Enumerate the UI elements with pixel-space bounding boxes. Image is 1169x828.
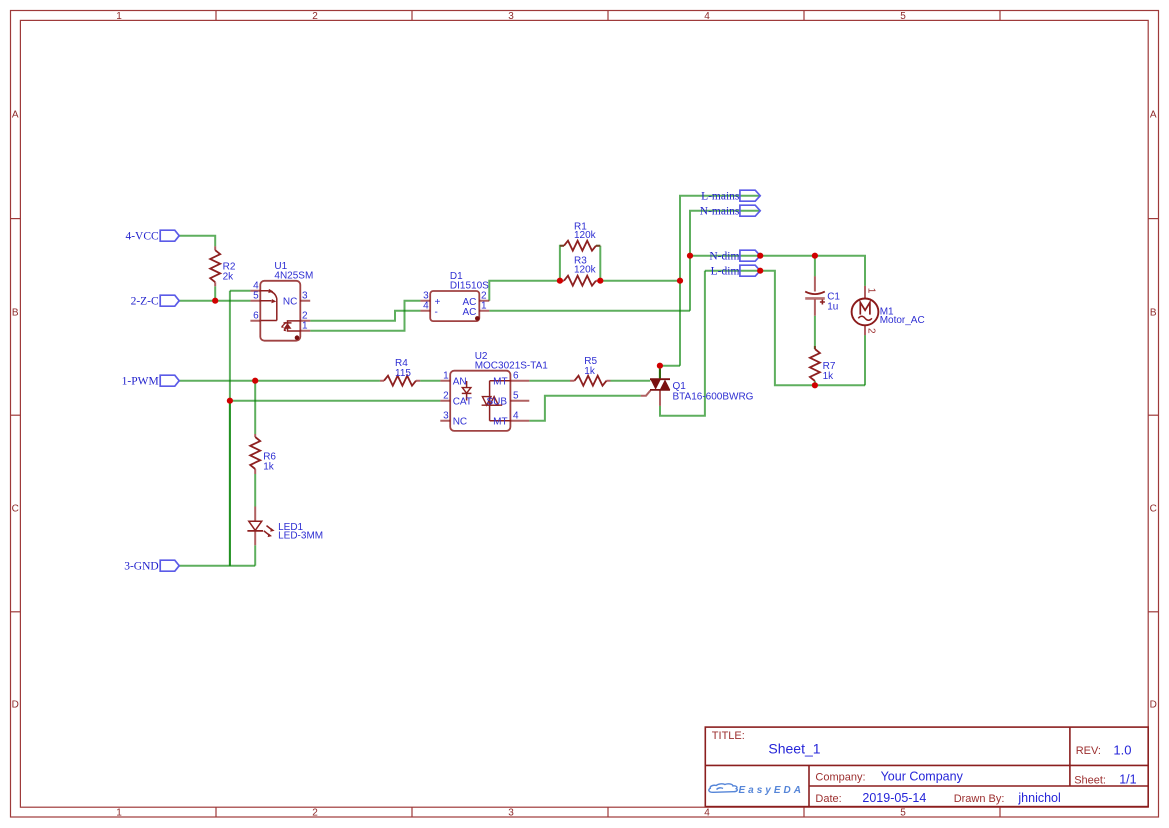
svg-text:4: 4 [513, 411, 519, 422]
U1 phototransistor arrows [268, 289, 273, 293]
svg-text:N-mains: N-mains [700, 206, 740, 218]
titleblock outer box [705, 727, 1148, 807]
svg-text:1: 1 [481, 301, 487, 312]
U1 pin1 marker dot [295, 335, 300, 340]
svg-text:5: 5 [900, 11, 906, 22]
wire Q1 MT1 to L-dim vertical [660, 271, 705, 416]
svg-text:2: 2 [312, 808, 318, 819]
wire R1 right riser [596, 246, 600, 281]
D1 body box [430, 291, 479, 321]
U1 body box [260, 281, 300, 341]
Q1 pin leads and gate [641, 369, 660, 406]
node PWM junction [252, 378, 258, 384]
wire U1 pin1 to D1 pin3 [310, 301, 420, 331]
svg-text:1k: 1k [263, 462, 275, 473]
U2 triac [490, 381, 511, 421]
node R1/R3 left junction [557, 278, 563, 284]
resistor R7 [810, 346, 836, 382]
frame column tick marks bottom [216, 807, 1000, 817]
node L bus junction [677, 278, 683, 284]
capacitor C1 [805, 276, 840, 316]
wire L-dim feed from Q1 [705, 270, 760, 272]
wire vertical bus lower segment doubled [229, 401, 231, 566]
R4 pin leads [380, 380, 420, 382]
svg-text:3: 3 [302, 291, 308, 302]
svg-text:1: 1 [866, 288, 877, 294]
wire C1 bottom to R7 [814, 316, 816, 349]
wire R5 to Q1 MT2 bar [611, 380, 651, 382]
frame column numbers bottom [116, 808, 906, 819]
frame row letters left [12, 110, 19, 711]
wire D1 pin1 to N vertical [489, 310, 690, 312]
wire U1 pin2 to D1 pin4 [310, 311, 420, 321]
wire U1 pin4 to vertical bus [230, 290, 251, 292]
svg-text:BTA16-600BWRG: BTA16-600BWRG [673, 391, 754, 402]
node N-dim tip junction [757, 253, 763, 259]
node L-dim tip junction [757, 268, 763, 274]
LED1 pin leads [254, 507, 256, 546]
R3 pin leads [560, 280, 600, 282]
wire R3 right to L node [600, 280, 680, 282]
svg-text:Company:: Company: [815, 772, 865, 784]
svg-text:6: 6 [513, 371, 519, 382]
svg-text:1u: 1u [827, 301, 838, 312]
titleblock logo column divider [808, 765, 810, 806]
U1 internal LED diode [288, 321, 301, 331]
R2 zigzag body [210, 250, 220, 282]
port N-mains [700, 205, 760, 217]
svg-text:1.0: 1.0 [1113, 743, 1131, 758]
svg-text:MT: MT [493, 377, 507, 388]
svg-text:L-dim: L-dim [711, 266, 740, 278]
svg-text:4N25SM: 4N25SM [274, 271, 313, 282]
port 1-PWM [122, 375, 180, 387]
LED1 emission arrow 2 [264, 531, 270, 536]
wire Q1 MT2 node [660, 366, 680, 378]
frame column tick marks top [216, 11, 1000, 21]
wire N-dim to C1 and M1 [760, 256, 865, 286]
wire 1-PWM to R4 [179, 380, 380, 382]
node C1 top junction [812, 253, 818, 259]
Q1 MT bars [650, 379, 670, 390]
wire LED1 bottom to GND rail [254, 545, 256, 565]
D1 pin leads [420, 301, 489, 311]
port 4-VCC [125, 230, 179, 242]
svg-text:6: 6 [253, 311, 259, 322]
U1 pin leads [250, 291, 310, 331]
frame row letters right [1150, 110, 1157, 711]
resistor R2 [210, 246, 236, 286]
svg-text:2: 2 [866, 328, 877, 334]
titleblock title row divider [705, 764, 1148, 766]
svg-text:1: 1 [443, 371, 449, 382]
LED LED1 [247, 507, 323, 546]
M1 pin leads [864, 286, 866, 335]
svg-text:A: A [12, 110, 19, 121]
R3 zigzag body [564, 276, 596, 286]
LED1 emission arrow 1 [267, 526, 273, 531]
C1 straight plate [805, 297, 825, 300]
wire L vertical L-mains to Q1 [680, 196, 760, 366]
svg-text:-: - [435, 307, 438, 318]
svg-text:3-GND: 3-GND [124, 561, 159, 573]
R6 pin leads [254, 434, 256, 474]
wire 4-VCC to R2 top [179, 236, 215, 247]
svg-text:NC: NC [283, 297, 297, 308]
svg-text:B: B [12, 308, 19, 319]
svg-text:LED-3MM: LED-3MM [278, 531, 323, 542]
svg-text:1k: 1k [584, 366, 596, 377]
svg-text:4-VCC: 4-VCC [125, 231, 159, 243]
node N bus junction [687, 253, 693, 259]
svg-text:5: 5 [253, 291, 259, 302]
svg-text:MT: MT [493, 417, 507, 428]
svg-text:1: 1 [116, 808, 122, 819]
svg-text:B: B [1150, 308, 1157, 319]
node R7 bottom junction [812, 382, 818, 388]
port N-dim [709, 250, 760, 262]
R5 pin leads [570, 380, 611, 382]
wire R2 bottom to node ZC [214, 286, 216, 300]
frame row tick marks left [11, 219, 21, 612]
svg-text:2: 2 [443, 391, 449, 402]
wire N-dim stub [690, 255, 760, 257]
svg-text:Sheet_1: Sheet_1 [768, 741, 820, 757]
port L-dim [711, 265, 761, 277]
resistor R1 [560, 221, 600, 250]
svg-text:2019-05-14: 2019-05-14 [862, 791, 926, 805]
diode bridge D1 [420, 271, 489, 321]
svg-text:EasyEDA: EasyEDA [739, 785, 804, 796]
C1 polarity plus sign [820, 300, 825, 305]
frame row tick marks right [1148, 219, 1158, 612]
svg-text:2: 2 [312, 11, 318, 22]
titleblock [705, 727, 1148, 807]
U2 LED [466, 381, 468, 401]
wire bus junction to U2 pin2 [230, 400, 440, 402]
svg-text:A: A [1150, 110, 1157, 121]
wire vertical bus lower segment overlay [229, 401, 231, 566]
svg-text:Sheet:: Sheet: [1074, 775, 1106, 787]
svg-text:N-dim: N-dim [709, 251, 739, 263]
svg-text:L-mains: L-mains [701, 191, 740, 203]
Q1 right triangle [660, 379, 671, 390]
U2 body box [450, 371, 510, 431]
svg-text:1: 1 [116, 11, 122, 22]
svg-text:1: 1 [302, 321, 308, 332]
wire vertical bus upper segment [229, 291, 231, 401]
svg-text:jhnichol: jhnichol [1017, 791, 1060, 805]
R7 zigzag body [810, 349, 820, 381]
LED1 cathode bar [247, 530, 263, 532]
svg-text:SUB: SUB [486, 397, 507, 408]
svg-text:C: C [12, 503, 19, 514]
svg-text:AN: AN [453, 377, 467, 388]
wire R6 bottom to LED1 [254, 474, 256, 507]
svg-text:1k: 1k [823, 371, 835, 382]
motor M1 [852, 286, 925, 335]
svg-text:2k: 2k [223, 272, 235, 283]
svg-text:C: C [1150, 503, 1157, 514]
svg-text:4: 4 [423, 301, 429, 312]
wire R1 left riser [560, 246, 564, 281]
svg-text:3: 3 [443, 411, 449, 422]
EasyEDA logo cloud [709, 784, 738, 793]
U1 phototransistor [260, 291, 277, 321]
port 3-GND [124, 560, 179, 572]
svg-text:TITLE:: TITLE: [712, 730, 745, 742]
U2 pin leads [440, 381, 529, 421]
svg-text:D: D [12, 700, 19, 711]
Q1 left triangle [650, 379, 661, 390]
svg-text:3: 3 [508, 11, 514, 22]
triac Q1 [641, 366, 754, 406]
node bus to U2 CAT junction [227, 398, 233, 404]
svg-text:DI1510S: DI1510S [450, 280, 489, 291]
wire 3-GND rail [179, 565, 255, 567]
svg-text:Motor_AC: Motor_AC [880, 315, 925, 326]
wire PWM junction down to R6 [254, 381, 256, 434]
svg-text:5: 5 [900, 808, 906, 819]
optocoupler triac driver U2 [440, 351, 548, 431]
junction dots [212, 253, 818, 404]
svg-text:120k: 120k [574, 265, 597, 276]
svg-text:Your Company: Your Company [881, 770, 964, 784]
svg-text:120k: 120k [574, 230, 597, 241]
svg-text:Q1: Q1 [673, 381, 687, 392]
Q1 MT2 wire overlay [659, 366, 661, 379]
svg-text:5: 5 [513, 391, 519, 402]
wire R4 to U2 pin1 [420, 380, 440, 382]
node Q1 MT2 junction [657, 363, 663, 369]
D1 pin1 marker dot [475, 316, 480, 321]
wire U2 pin4 to Q1 gate [529, 396, 640, 421]
svg-text:Date:: Date: [815, 793, 841, 805]
svg-text:3: 3 [508, 808, 514, 819]
wire N vertical [690, 211, 760, 311]
svg-text:AC: AC [462, 307, 476, 318]
frame column numbers top [116, 11, 906, 22]
node R1/R3 right junction [597, 278, 603, 284]
R4 zigzag body [384, 376, 416, 386]
optocoupler U1 [250, 261, 313, 341]
svg-text:1-PWM: 1-PWM [122, 376, 159, 388]
C1 curved plate [805, 292, 825, 295]
svg-text:NC: NC [453, 417, 467, 428]
svg-text:D: D [1150, 700, 1157, 711]
resistor R5 [570, 356, 611, 386]
wire C1 top feed [814, 256, 816, 277]
LED1 triangle [249, 521, 262, 530]
wire U2 pin6 to R5 [529, 380, 570, 382]
M1 letter M [860, 302, 870, 314]
svg-text:Drawn By:: Drawn By: [954, 793, 1005, 805]
svg-text:115: 115 [395, 368, 411, 379]
R1 zigzag body [564, 241, 596, 251]
svg-text:CAT: CAT [453, 397, 472, 408]
svg-text:1/1: 1/1 [1119, 773, 1136, 787]
wire D1 pin2 riser to R3 left [489, 281, 560, 301]
resistor R4 [380, 358, 420, 386]
M1 circle body [852, 299, 879, 326]
resistor R6 [250, 434, 276, 474]
titleblock rev column divider [1069, 727, 1071, 786]
R5 zigzag body [575, 376, 607, 386]
C1 pin leads [814, 276, 816, 316]
svg-text:REV:: REV: [1076, 745, 1101, 757]
wire L-dim to bottom rail [760, 271, 865, 386]
svg-text:2-Z-C: 2-Z-C [131, 296, 159, 308]
resistor R3 [560, 256, 600, 286]
wire M1 pin2 green stub [864, 335, 866, 385]
port 2-Z-C [131, 295, 180, 307]
titleblock company/date row divider [809, 785, 1148, 787]
wire R7 bottom stub [814, 381, 816, 385]
svg-text:MOC3021S-TA1: MOC3021S-TA1 [475, 360, 549, 371]
R2 pin leads [214, 246, 216, 286]
port L-mains [701, 190, 760, 202]
R7 pin leads [814, 346, 816, 381]
wire 2-Z-C to U1 pin5 [179, 300, 250, 302]
svg-text:4: 4 [704, 808, 710, 819]
M1 AC tilde [858, 316, 872, 320]
svg-text:4: 4 [704, 11, 710, 22]
node R2/Z-C junction [212, 298, 218, 304]
R1 pin leads [560, 245, 600, 247]
R6 zigzag body [250, 437, 260, 469]
